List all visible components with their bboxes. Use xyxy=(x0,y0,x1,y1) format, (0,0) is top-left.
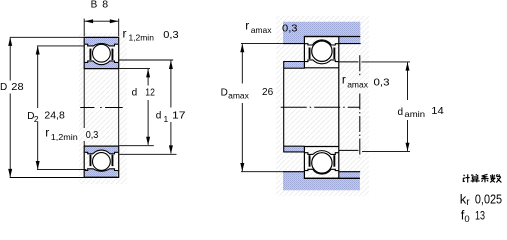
shaft right stub bottom edge xyxy=(339,149,359,151)
D2 arrow up xyxy=(36,46,40,55)
outer ring inner profile bottom xyxy=(305,169,339,174)
cage bars top (right view) xyxy=(309,48,311,60)
D2 arrow down xyxy=(36,161,40,170)
d1 arrow up xyxy=(169,61,173,70)
bottom face edge (OD line) xyxy=(84,176,119,178)
outer ring bottom outline xyxy=(85,169,118,171)
svg-text:0,025: 0,025 xyxy=(475,192,502,207)
Damax arrow up xyxy=(240,44,244,53)
svg-text:d: d xyxy=(156,111,162,122)
shaft right end dash-dot line xyxy=(359,55,361,157)
d dimension extension bottom xyxy=(119,145,154,147)
svg-text:0,3: 0,3 xyxy=(282,22,298,34)
svg-text:13: 13 xyxy=(475,208,485,222)
bearing top section outline (right view) xyxy=(304,36,339,179)
svg-text:0: 0 xyxy=(464,214,469,222)
faint canvas hatch left drawing xyxy=(79,33,127,184)
d1 arrow down xyxy=(169,145,173,154)
svg-text:1,2min: 1,2min xyxy=(129,33,155,43)
B dimension arrow left xyxy=(85,19,94,23)
housing bottom band (blue) xyxy=(283,172,360,190)
svg-text:0,3: 0,3 xyxy=(374,77,390,89)
D arrow up xyxy=(8,37,12,46)
d1 dimension extension top xyxy=(119,59,173,61)
left face bottom (right view) xyxy=(303,146,305,179)
outer ring inner profile top xyxy=(305,40,339,45)
top face edge (OD line) xyxy=(84,36,119,38)
housing top band (blue) xyxy=(283,22,360,44)
damin arrow down xyxy=(406,143,410,152)
char 算 xyxy=(471,174,480,182)
axis center line xyxy=(80,106,123,108)
svg-text:d: d xyxy=(132,87,138,98)
svg-text:amax: amax xyxy=(347,80,369,90)
d1 dimension extension bottom xyxy=(119,153,176,155)
right face (right view, full) xyxy=(338,36,340,179)
svg-text:r: r xyxy=(466,197,470,208)
inner ring bottom outline xyxy=(85,150,118,154)
housing shoulder top line left (bottom) xyxy=(283,171,305,173)
svg-text:r: r xyxy=(123,26,127,40)
shaft shoulder top-left (blue) xyxy=(284,62,304,68)
svg-text:0,3: 0,3 xyxy=(163,29,178,41)
svg-text:B: B xyxy=(91,0,98,11)
OD top line xyxy=(304,36,339,38)
D dimension line xyxy=(9,38,11,81)
outer ring bottom (blue section) xyxy=(85,169,118,177)
ball top xyxy=(93,44,111,62)
Damax extension top xyxy=(241,43,283,45)
D2 dimension extension bottom xyxy=(37,169,87,171)
Damax arrow down xyxy=(240,163,244,172)
svg-text:1: 1 xyxy=(164,114,169,124)
char 系 xyxy=(481,174,488,182)
outer ring top (blue section) xyxy=(85,38,118,46)
CJK heading strokes (计算系数) xyxy=(463,174,501,183)
B dimension arrow right xyxy=(110,19,119,23)
right face line bottom section xyxy=(118,146,120,178)
char 计 xyxy=(463,174,470,182)
cage bars bottom xyxy=(90,155,92,166)
bore line top (right view) xyxy=(304,67,338,69)
housing shoulder bottom line left xyxy=(283,43,305,45)
svg-text:r: r xyxy=(245,18,249,32)
svg-text:amin: amin xyxy=(404,109,425,119)
D2 dimension extension top xyxy=(37,45,84,47)
B dimension line xyxy=(85,20,119,22)
D arrow down xyxy=(8,169,12,178)
d dimension extension top xyxy=(119,67,150,69)
svg-text:D: D xyxy=(0,82,7,93)
Damax extension bottom xyxy=(241,171,283,173)
damin extension bottom xyxy=(362,150,410,152)
svg-text:8: 8 xyxy=(102,0,108,11)
damin dimension line xyxy=(407,62,409,100)
cage bars bottom (right view) xyxy=(309,155,311,167)
outer ring top outline xyxy=(85,44,118,46)
svg-text:d: d xyxy=(398,107,404,118)
shaft surface line bottom-left xyxy=(284,145,305,147)
shaft shoulder bottom-left (blue) xyxy=(284,147,304,152)
shaft shoulder top-left outline xyxy=(284,61,305,63)
D dimension extension top xyxy=(10,36,84,38)
ball top (right view) xyxy=(312,41,332,61)
shaft left end face xyxy=(283,61,285,152)
housing shoulder top line right (bottom) xyxy=(339,171,360,173)
OD bottom line xyxy=(304,177,339,179)
faint canvas hatch right drawing xyxy=(276,16,369,196)
svg-text:r: r xyxy=(342,73,346,87)
B dimension extension lines xyxy=(83,19,85,36)
left face line top section xyxy=(83,37,85,69)
bore silhouette right line xyxy=(118,69,120,145)
bore line bottom (right view) xyxy=(304,146,338,148)
shaft shoulder bottom-left outline xyxy=(284,151,305,153)
char 数 xyxy=(490,174,501,182)
inner ring top outline xyxy=(85,61,118,65)
svg-text:0,3: 0,3 xyxy=(86,129,99,141)
d dimension line xyxy=(147,69,149,86)
d arrow up xyxy=(146,69,150,78)
svg-text:1,2min: 1,2min xyxy=(51,132,78,142)
damin arrow up xyxy=(406,62,410,71)
svg-text:12: 12 xyxy=(145,86,155,98)
shaft right stub top edge xyxy=(339,61,359,63)
inner ring top (blue section) xyxy=(85,61,118,68)
svg-text:26: 26 xyxy=(262,86,273,98)
inner ring outer profile bottom xyxy=(305,151,339,155)
d1 dimension line xyxy=(170,61,172,108)
left face line bottom section xyxy=(83,146,85,178)
bore silhouette left line (broken at 0,3 text) xyxy=(83,69,85,128)
housing shoulder bottom line right xyxy=(339,43,361,45)
right face line top section xyxy=(118,37,120,69)
left face top (right view) xyxy=(303,36,305,69)
axis center line (right view) xyxy=(281,106,360,108)
D dimension extension bottom xyxy=(10,177,86,179)
D2 dimension line xyxy=(37,46,39,108)
svg-text:amax: amax xyxy=(228,90,250,100)
svg-text:amax: amax xyxy=(251,25,273,35)
Damax dimension line xyxy=(241,44,243,83)
svg-text:28: 28 xyxy=(11,81,23,93)
shaft surface line top-left xyxy=(284,67,305,69)
ball bottom xyxy=(93,153,111,171)
svg-text:14: 14 xyxy=(431,105,444,117)
damin extension top xyxy=(361,61,410,63)
ball bottom (right view) xyxy=(312,153,332,173)
d arrow down xyxy=(146,137,150,146)
bore line top section xyxy=(84,68,119,70)
inner ring outer profile top xyxy=(305,60,339,64)
svg-text:D: D xyxy=(221,87,228,98)
housing bore line over bearing xyxy=(304,36,360,38)
housing bore line bottom xyxy=(304,177,360,179)
inner ring bottom (blue section) xyxy=(85,147,118,154)
bore line bottom section xyxy=(84,145,119,147)
svg-text:r: r xyxy=(45,126,49,140)
svg-text:17: 17 xyxy=(172,109,186,121)
bearing bottom section outline (right view) xyxy=(304,146,339,179)
cage bars top xyxy=(90,49,92,60)
svg-text:2: 2 xyxy=(34,114,39,124)
svg-text:24,8: 24,8 xyxy=(44,110,65,122)
